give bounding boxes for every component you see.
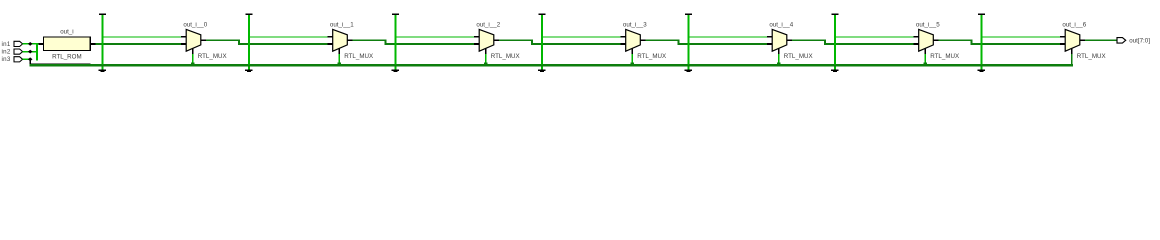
ground symbol stage 4 (685, 66, 692, 72)
mux out_i__6 select stub (1071, 48, 1073, 54)
ground symbol stage 3 (538, 66, 545, 72)
wire const to mux in0 stage 3 (541, 36, 621, 37)
input port in2 (2, 49, 23, 56)
wire in3 stub (23, 59, 30, 61)
mux out_i__0 output stub (201, 39, 206, 41)
junction select net stage 1 (337, 62, 341, 66)
mux out_i__5 in0 stub (914, 36, 919, 38)
mux out_i__1 select stub (338, 48, 340, 54)
mux out_i__2 output stub (494, 39, 499, 41)
svg-text:out_i__5: out_i__5 (916, 21, 940, 28)
wire const to mux in0 stage 6 (980, 36, 1060, 37)
wire step down stage 3 (678, 39, 680, 45)
wire vcc rail vertical stage 1 (248, 15, 250, 65)
svg-text:RTL_MUX: RTL_MUX (1077, 53, 1106, 60)
mux out_i__2 body RTL_MUX (479, 29, 494, 51)
wire select drop stage 0 (192, 54, 194, 64)
wire select drop stage 4 (778, 54, 780, 64)
bus ripper in2 (28, 50, 33, 54)
wire mux3 output upper segment (646, 39, 680, 41)
wire mux2 output upper segment (499, 39, 533, 41)
svg-text:out_i: out_i (60, 29, 73, 36)
wire vcc rail vertical stage 3 (541, 15, 543, 65)
wire step down stage 2 (531, 39, 533, 45)
wire vcc rail vertical stage 4 (687, 15, 689, 65)
bus ripper in3 (28, 57, 33, 61)
wire vcc rail vertical stage 6 (980, 15, 982, 65)
ground symbol stage 5 (831, 66, 838, 72)
mux out_i__4 in1 stub (767, 43, 772, 45)
power vcc symbol stage 6 (978, 13, 985, 15)
wire vcc rail vertical stage 2 (394, 15, 396, 65)
wire select drop stage 6 (1071, 54, 1073, 64)
mux out_i__0 in1 stub (181, 43, 186, 45)
mux out_i__6 in0 stub (1060, 36, 1065, 38)
svg-text:out_i__4: out_i__4 (769, 21, 793, 28)
svg-text:RTL_MUX: RTL_MUX (930, 53, 959, 60)
wire mux0 output upper segment (206, 39, 240, 41)
wire lower segment to mux5 (824, 43, 913, 45)
wire mux5 output upper segment (939, 39, 973, 41)
wire select net dark segment (29, 63, 90, 64)
input port in3 (2, 56, 23, 63)
mux out_i__1 in0 stub (328, 36, 333, 38)
wire select drop stage 5 (924, 54, 926, 64)
wire const to mux in0 stage 4 (687, 36, 767, 37)
svg-text:RTL_MUX: RTL_MUX (637, 53, 666, 60)
wire const to mux in0 stage 2 (394, 36, 474, 37)
mux out_i__1 in1 stub (328, 43, 333, 45)
rom out_i input stub (38, 43, 43, 45)
svg-text:in1: in1 (2, 41, 11, 48)
mux out_i__5 body RTL_MUX (919, 29, 934, 51)
mux out_i__3 in1 stub (621, 43, 626, 45)
wire select drop stage 2 (485, 54, 487, 64)
address bus vertical (36, 43, 38, 60)
power vcc symbol stage 0 (99, 13, 106, 15)
wire step down stage 5 (971, 39, 973, 45)
output port out[7:0] glyph (1117, 38, 1126, 44)
wire select net horizontal (29, 64, 1073, 66)
wire vcc rail vertical stage 5 (834, 15, 836, 65)
svg-text:RTL_ROM: RTL_ROM (52, 54, 81, 61)
ground symbol stage 0 (99, 66, 106, 72)
power vcc symbol stage 5 (831, 13, 838, 15)
svg-text:out_i__2: out_i__2 (476, 21, 500, 28)
mux out_i__5 in1 stub (914, 43, 919, 45)
power vcc symbol stage 2 (392, 13, 399, 15)
svg-text:out_i__3: out_i__3 (623, 21, 647, 28)
mux out_i__5 output stub (933, 39, 938, 41)
wire lower segment to mux1 (238, 43, 327, 45)
svg-text:out_i__6: out_i__6 (1062, 21, 1086, 28)
mux out_i__3 select stub (631, 48, 633, 54)
wire in3 drop to select net (29, 59, 31, 65)
junction select net stage 0 (191, 62, 195, 66)
wire in2 to bus (23, 51, 38, 53)
wire in1 to bus (23, 43, 39, 45)
wire lower segment to mux3 (531, 43, 620, 45)
ground symbol stage 1 (245, 66, 252, 72)
wire lower segment to mux2 (385, 43, 474, 45)
svg-text:RTL_MUX: RTL_MUX (784, 53, 813, 60)
wire const to mux in0 stage 0 (101, 36, 181, 37)
svg-text:in3: in3 (2, 56, 11, 63)
input port in1 (2, 41, 23, 48)
wire step down stage 4 (824, 39, 826, 45)
mux out_i__4 in0 stub (767, 36, 772, 38)
mux out_i__4 body RTL_MUX (772, 29, 787, 51)
svg-text:out_i__1: out_i__1 (330, 21, 354, 28)
mux out_i__3 output stub (640, 39, 645, 41)
wire const to mux in0 stage 5 (834, 36, 914, 37)
wire const to mux in0 stage 1 (248, 36, 328, 37)
wire step down stage 1 (385, 39, 387, 45)
ground symbol stage 6 (978, 66, 985, 72)
power vcc symbol stage 4 (685, 13, 692, 15)
rom out_i output stub (90, 43, 95, 45)
svg-text:out_i__0: out_i__0 (183, 21, 207, 28)
mux out_i__0 body RTL_MUX (186, 29, 201, 51)
mux out_i__5 select stub (924, 48, 926, 54)
svg-text:RTL_MUX: RTL_MUX (344, 53, 373, 60)
mux out_i__3 in0 stub (621, 36, 626, 38)
mux out_i__3 body RTL_MUX (626, 29, 641, 51)
junction select net stage 4 (777, 62, 781, 66)
mux out_i__2 select stub (485, 48, 487, 54)
ground symbol stage 2 (392, 66, 399, 72)
wire mux1 output upper segment (353, 39, 387, 41)
wire vcc rail vertical stage 0 (101, 15, 103, 65)
wire rom output to mux0 (96, 43, 182, 45)
bus ripper in1 (28, 42, 33, 46)
junction select net stage 5 (923, 62, 927, 66)
mux out_i__6 in1 stub (1060, 43, 1065, 45)
svg-text:in2: in2 (2, 49, 11, 56)
svg-text:RTL_MUX: RTL_MUX (491, 53, 520, 60)
wire mux4 output upper segment (792, 39, 826, 41)
wire select drop stage 3 (631, 54, 633, 64)
power vcc symbol stage 3 (538, 13, 545, 15)
svg-text:out[7:0]: out[7:0] (1129, 38, 1150, 45)
wire select drop stage 1 (338, 54, 340, 64)
mux out_i__4 select stub (778, 48, 780, 54)
mux out_i__0 in0 stub (181, 36, 186, 38)
mux out_i__2 in0 stub (474, 36, 479, 38)
svg-text:RTL_MUX: RTL_MUX (198, 53, 227, 60)
junction select net stage 3 (630, 62, 634, 66)
wire step down stage 0 (238, 39, 240, 45)
mux out_i__6 body RTL_MUX (1065, 29, 1080, 51)
mux out_i__0 select stub (192, 48, 194, 54)
wire lower segment to mux6 (971, 43, 1060, 45)
power vcc symbol stage 1 (245, 13, 252, 15)
mux out_i__4 output stub (787, 39, 792, 41)
wire mux6 output to port (1085, 39, 1117, 41)
mux out_i__1 body RTL_MUX (333, 29, 348, 51)
junction select net stage 2 (484, 62, 488, 66)
rom out_i body RTL_ROM (44, 37, 91, 50)
mux out_i__1 output stub (347, 39, 352, 41)
wire lower segment to mux4 (678, 43, 767, 45)
mux out_i__2 in1 stub (474, 43, 479, 45)
mux out_i__6 output stub (1080, 39, 1085, 41)
